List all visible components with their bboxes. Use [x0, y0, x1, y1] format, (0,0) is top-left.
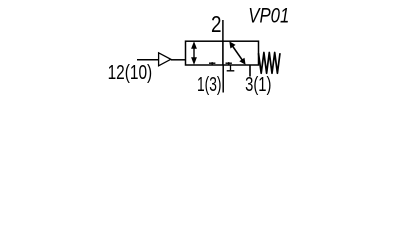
wire: pilot line to valve body	[171, 59, 186, 61]
right box blocked port T	[226, 62, 232, 65]
left box blocked port T	[209, 62, 215, 65]
left box flow path: double-headed vertical arrow	[191, 41, 197, 65]
wire: port 3 stub	[249, 65, 251, 77]
pilot actuator triangle	[159, 53, 171, 66]
right box flow path: double-headed diagonal arrow	[229, 41, 245, 64]
return spring	[259, 53, 281, 74]
wire: port 2 stub	[222, 20, 224, 41]
svg-text:1(3): 1(3)	[197, 74, 222, 96]
svg-text:VP01: VP01	[248, 4, 289, 28]
wire: pilot line left segment	[137, 59, 159, 61]
blind plug T on blocked connection	[227, 65, 235, 71]
wire: port 1 line below valve	[222, 65, 224, 93]
valve body outer box	[186, 41, 259, 65]
svg-text:3(1): 3(1)	[245, 74, 271, 96]
svg-text:2: 2	[211, 11, 222, 37]
svg-text:12(10): 12(10)	[108, 62, 153, 84]
valve box divider	[222, 41, 224, 65]
